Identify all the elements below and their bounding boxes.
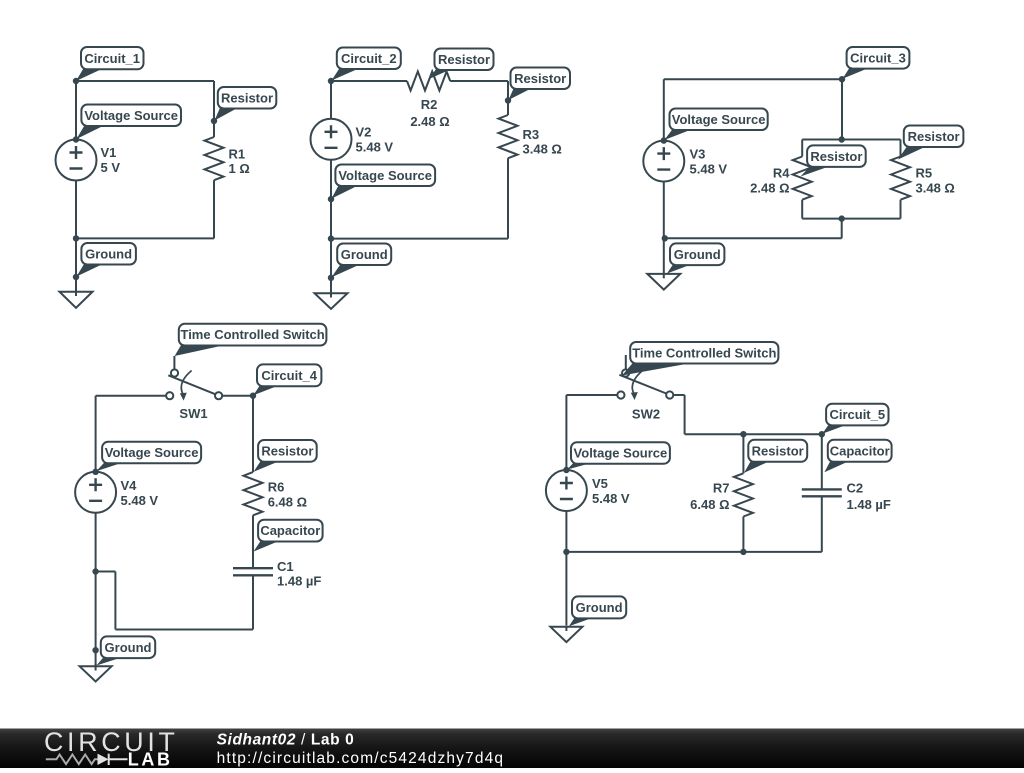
svg-text:V1: V1 bbox=[101, 145, 117, 160]
wire top rail circuit 1 bbox=[76, 80, 214, 82]
wire R7 lower lead bbox=[742, 517, 744, 552]
svg-text:Ground: Ground bbox=[576, 600, 623, 615]
svg-text:Circuit_4: Circuit_4 bbox=[261, 368, 317, 383]
wire V3 lower to ground bbox=[663, 182, 665, 278]
wire switch-right to node bbox=[222, 395, 253, 397]
svg-text:5.48 V: 5.48 V bbox=[690, 161, 728, 176]
voltage source V5 bbox=[546, 470, 587, 511]
callout Resistor R5 bbox=[898, 126, 963, 160]
resistor R1 bbox=[205, 137, 224, 180]
svg-text:Resistor: Resistor bbox=[908, 129, 960, 144]
svg-text:Capacitor: Capacitor bbox=[260, 523, 320, 538]
SW2 pivot terminal bbox=[622, 369, 629, 376]
callout Resistor R7 bbox=[744, 440, 807, 473]
svg-text:Circuit_5: Circuit_5 bbox=[829, 407, 885, 422]
wire switch-right bbox=[673, 394, 684, 396]
voltage source V4 bbox=[75, 472, 116, 513]
SW1 pivot terminal bbox=[171, 369, 178, 376]
ground symbol circuit 4 bbox=[80, 664, 112, 682]
wire bottom rail bbox=[76, 237, 214, 239]
node switch-right bbox=[250, 393, 256, 399]
svg-text:Ground: Ground bbox=[105, 640, 152, 655]
svg-text:6.48 Ω: 6.48 Ω bbox=[690, 497, 729, 512]
wire top rail bbox=[664, 78, 842, 80]
ground symbol circuit 2 bbox=[315, 293, 348, 309]
node V5 top bbox=[563, 467, 569, 473]
wire bottom across bbox=[115, 629, 253, 631]
node ground anchor bbox=[328, 275, 334, 281]
ground symbol circuit 1 bbox=[60, 292, 93, 308]
wire switch-left to corner bbox=[566, 394, 617, 396]
wire R5 upper lead bbox=[900, 140, 902, 157]
callout Voltage Source V3 bbox=[664, 109, 767, 141]
SW2 blade bbox=[619, 375, 666, 394]
wire R3 lower lead bbox=[507, 158, 509, 238]
wire left lower bbox=[75, 181, 77, 239]
svg-text:V4: V4 bbox=[121, 478, 138, 493]
node V3 top bbox=[661, 137, 667, 143]
resistor R3 bbox=[499, 115, 518, 158]
callout Circuit_4 bbox=[253, 364, 321, 395]
wire R6 to C1 bbox=[252, 515, 254, 568]
svg-text:V3: V3 bbox=[690, 146, 706, 161]
wire V2 lower bbox=[330, 160, 332, 239]
svg-text:Resistor: Resistor bbox=[514, 71, 566, 86]
callout Resistor R1 bbox=[215, 87, 277, 121]
callout Resistor R2 bbox=[429, 49, 494, 80]
node V1 top bbox=[73, 136, 79, 142]
SW1 arc arrow bbox=[181, 371, 191, 395]
wire node down to R6 bbox=[252, 396, 254, 472]
svg-text:R7: R7 bbox=[713, 480, 730, 495]
callout Resistor R4 bbox=[801, 145, 866, 176]
wire R4 upper lead bbox=[801, 140, 803, 157]
voltage source V3 bbox=[643, 141, 684, 182]
callout Ground circuit 4 bbox=[96, 636, 155, 665]
wire R5 lower lead bbox=[900, 200, 902, 219]
svg-text:5.48 V: 5.48 V bbox=[356, 140, 394, 155]
svg-text:Circuit_3: Circuit_3 bbox=[850, 50, 906, 65]
svg-text:Ground: Ground bbox=[674, 247, 721, 262]
wire switch-left to corner bbox=[96, 395, 167, 397]
wire left upper bbox=[75, 81, 77, 140]
wire right upper bbox=[213, 81, 215, 137]
wire down bbox=[684, 395, 686, 434]
callout Voltage Source V2 bbox=[332, 165, 436, 199]
callout Capacitor C1 bbox=[254, 520, 323, 552]
svg-text:Time Controlled Switch: Time Controlled Switch bbox=[180, 327, 324, 342]
node left return junction bbox=[92, 568, 98, 574]
svg-text:R1: R1 bbox=[229, 147, 246, 162]
svg-text:Resistor: Resistor bbox=[221, 90, 273, 105]
node R7 top bbox=[740, 431, 746, 437]
svg-text:http://circuitlab.com/c5424dzh: http://circuitlab.com/c5424dzhy7d4q bbox=[217, 750, 505, 767]
wire to ground bbox=[330, 239, 332, 293]
svg-text:SW1: SW1 bbox=[179, 406, 207, 421]
svg-text:Voltage Source: Voltage Source bbox=[672, 112, 766, 127]
node bottom-left junction bbox=[563, 549, 569, 555]
wire to left rail bbox=[96, 571, 116, 573]
SW2 left terminal bbox=[617, 391, 624, 398]
svg-text:C1: C1 bbox=[277, 559, 294, 574]
svg-text:Voltage Source: Voltage Source bbox=[574, 446, 668, 461]
wire V3 upper bbox=[663, 79, 665, 140]
wire bottom rail bbox=[566, 551, 821, 553]
callout Time Controlled Switch SW2 bbox=[622, 342, 778, 376]
svg-text:Resistor: Resistor bbox=[752, 443, 804, 458]
callout Voltage Source V4 bbox=[96, 442, 201, 472]
resistor R4 bbox=[793, 157, 812, 200]
callout Ground circuit 2 bbox=[332, 244, 392, 278]
wire parallel bottom rail bbox=[802, 218, 900, 220]
svg-text:R2: R2 bbox=[421, 97, 438, 112]
resistor R2 bbox=[407, 72, 450, 91]
wire SW1 stub bbox=[173, 356, 175, 369]
svg-text:SW2: SW2 bbox=[632, 406, 660, 421]
wire right upper bbox=[841, 79, 843, 139]
wire V5 lower to ground bbox=[565, 511, 567, 626]
callout Circuit_5 bbox=[822, 404, 888, 434]
node V2 bottom anchor bbox=[328, 196, 334, 202]
svg-text:Time Controlled Switch: Time Controlled Switch bbox=[632, 345, 776, 360]
svg-text:V5: V5 bbox=[592, 476, 608, 491]
wire V4 lower to ground bbox=[95, 513, 97, 665]
svg-text:Capacitor: Capacitor bbox=[830, 443, 890, 458]
voltage source V1 bbox=[56, 140, 97, 181]
callout Resistor R3 bbox=[509, 68, 571, 101]
resistor R6 bbox=[244, 472, 263, 515]
footer bar bbox=[0, 729, 1024, 769]
svg-text:1.48 µF: 1.48 µF bbox=[277, 574, 321, 589]
node V4 top bbox=[92, 469, 98, 475]
ground symbol circuit 5 bbox=[550, 627, 582, 642]
callout Resistor R6 bbox=[254, 440, 317, 472]
wire up bbox=[114, 572, 116, 630]
svg-text:3.48 Ω: 3.48 Ω bbox=[916, 180, 955, 195]
SW2 right terminal bbox=[666, 391, 673, 398]
node bottom-left junction bbox=[662, 235, 668, 241]
svg-text:2.48 Ω: 2.48 Ω bbox=[410, 114, 449, 129]
svg-text:Resistor: Resistor bbox=[261, 443, 313, 458]
svg-text:R4: R4 bbox=[773, 166, 790, 181]
callout Voltage Source V1 bbox=[77, 105, 182, 140]
node parallel bottom bbox=[839, 215, 845, 221]
resistor R7 bbox=[734, 473, 753, 516]
logo diode bbox=[98, 754, 109, 765]
wire parallel top rail bbox=[802, 139, 900, 141]
node top-left bbox=[328, 78, 334, 84]
svg-text:5 V: 5 V bbox=[101, 160, 121, 175]
callout Voltage Source V5 bbox=[567, 442, 670, 469]
svg-text:R3: R3 bbox=[523, 127, 540, 142]
wire down to V4 bbox=[95, 396, 97, 472]
node top-right bbox=[839, 76, 845, 82]
node R7 bottom bbox=[740, 549, 746, 555]
svg-text:Ground: Ground bbox=[85, 246, 132, 261]
svg-text:LAB: LAB bbox=[128, 749, 173, 768]
svg-text:Circuit_2: Circuit_2 bbox=[341, 51, 397, 66]
callout Capacitor C2 bbox=[824, 440, 891, 473]
wire center drop bbox=[841, 219, 843, 239]
voltage source V2 bbox=[311, 119, 352, 160]
svg-text:C2: C2 bbox=[847, 480, 864, 495]
node bottom-left junction bbox=[73, 235, 79, 241]
wire down to V5 bbox=[565, 395, 567, 470]
svg-text:R6: R6 bbox=[268, 480, 285, 495]
svg-text:1.48 µF: 1.48 µF bbox=[847, 497, 891, 512]
SW2 arc arrow bbox=[632, 371, 642, 395]
svg-text:Ground: Ground bbox=[341, 247, 388, 262]
wire top-left bbox=[331, 80, 407, 82]
svg-text:Resistor: Resistor bbox=[438, 52, 490, 67]
wire V2 upper bbox=[330, 81, 332, 119]
node top-left bbox=[73, 78, 79, 84]
callout Circuit_3 bbox=[843, 47, 910, 79]
svg-text:Sidhant02 / Lab 0: Sidhant02 / Lab 0 bbox=[217, 731, 355, 748]
wire top rail to C2 bbox=[685, 433, 822, 435]
wire SW2 stub bbox=[625, 355, 627, 369]
wire R7 upper lead bbox=[742, 434, 744, 473]
wire C2 lower lead bbox=[821, 496, 823, 552]
svg-text:5.48 V: 5.48 V bbox=[592, 491, 630, 506]
SW1 right terminal bbox=[215, 392, 222, 399]
svg-text:2.48 Ω: 2.48 Ω bbox=[750, 180, 789, 195]
node C2 top bbox=[819, 431, 825, 437]
callout Ground circuit 5 bbox=[569, 596, 626, 626]
SW1 blade bbox=[168, 375, 215, 394]
switch SW1 bbox=[166, 356, 222, 401]
callout Time Controlled Switch SW1 bbox=[175, 324, 327, 356]
svg-text:R5: R5 bbox=[916, 166, 933, 181]
node parallel top bbox=[839, 136, 845, 142]
wire R4 lower lead bbox=[801, 200, 803, 219]
switch SW2 bbox=[617, 355, 673, 400]
svg-text:Circuit_1: Circuit_1 bbox=[84, 51, 140, 66]
ground symbol circuit 3 bbox=[647, 274, 680, 290]
wire C2 upper lead bbox=[821, 434, 823, 489]
svg-text:1 Ω: 1 Ω bbox=[229, 161, 250, 176]
capacitor C2 bbox=[802, 489, 842, 496]
node R3 anchor bbox=[505, 97, 511, 103]
wire R3 upper lead bbox=[507, 81, 509, 115]
wire top-right bbox=[450, 80, 508, 82]
node ground anchor bbox=[73, 274, 79, 280]
node bottom-left junction bbox=[328, 235, 334, 241]
resistor R5 bbox=[891, 157, 910, 200]
svg-text:Voltage Source: Voltage Source bbox=[338, 168, 432, 183]
svg-text:Resistor: Resistor bbox=[810, 149, 862, 164]
callout Ground circuit 1 bbox=[77, 243, 136, 277]
wire right lower bbox=[213, 180, 215, 238]
node R1 anchor bbox=[211, 118, 217, 124]
logo resistor squiggle bbox=[46, 755, 99, 765]
wire to ground bbox=[75, 238, 77, 291]
callout Circuit_1 bbox=[76, 47, 144, 81]
wire C1 down bbox=[252, 575, 254, 629]
svg-text:Voltage Source: Voltage Source bbox=[105, 445, 199, 460]
wire bottom rail bbox=[665, 237, 842, 239]
SW1 left terminal bbox=[166, 392, 173, 399]
svg-text:Voltage Source: Voltage Source bbox=[84, 108, 178, 123]
svg-text:V2: V2 bbox=[356, 125, 372, 140]
svg-text:5.48 V: 5.48 V bbox=[121, 493, 159, 508]
wire bottom rail bbox=[331, 238, 508, 240]
node ground anchor bbox=[92, 647, 98, 653]
callout Circuit_2 bbox=[332, 48, 401, 81]
svg-text:3.48 Ω: 3.48 Ω bbox=[523, 142, 562, 157]
svg-text:6.48 Ω: 6.48 Ω bbox=[268, 495, 307, 510]
capacitor C1 bbox=[233, 568, 273, 575]
callout Ground circuit 3 bbox=[667, 243, 725, 273]
